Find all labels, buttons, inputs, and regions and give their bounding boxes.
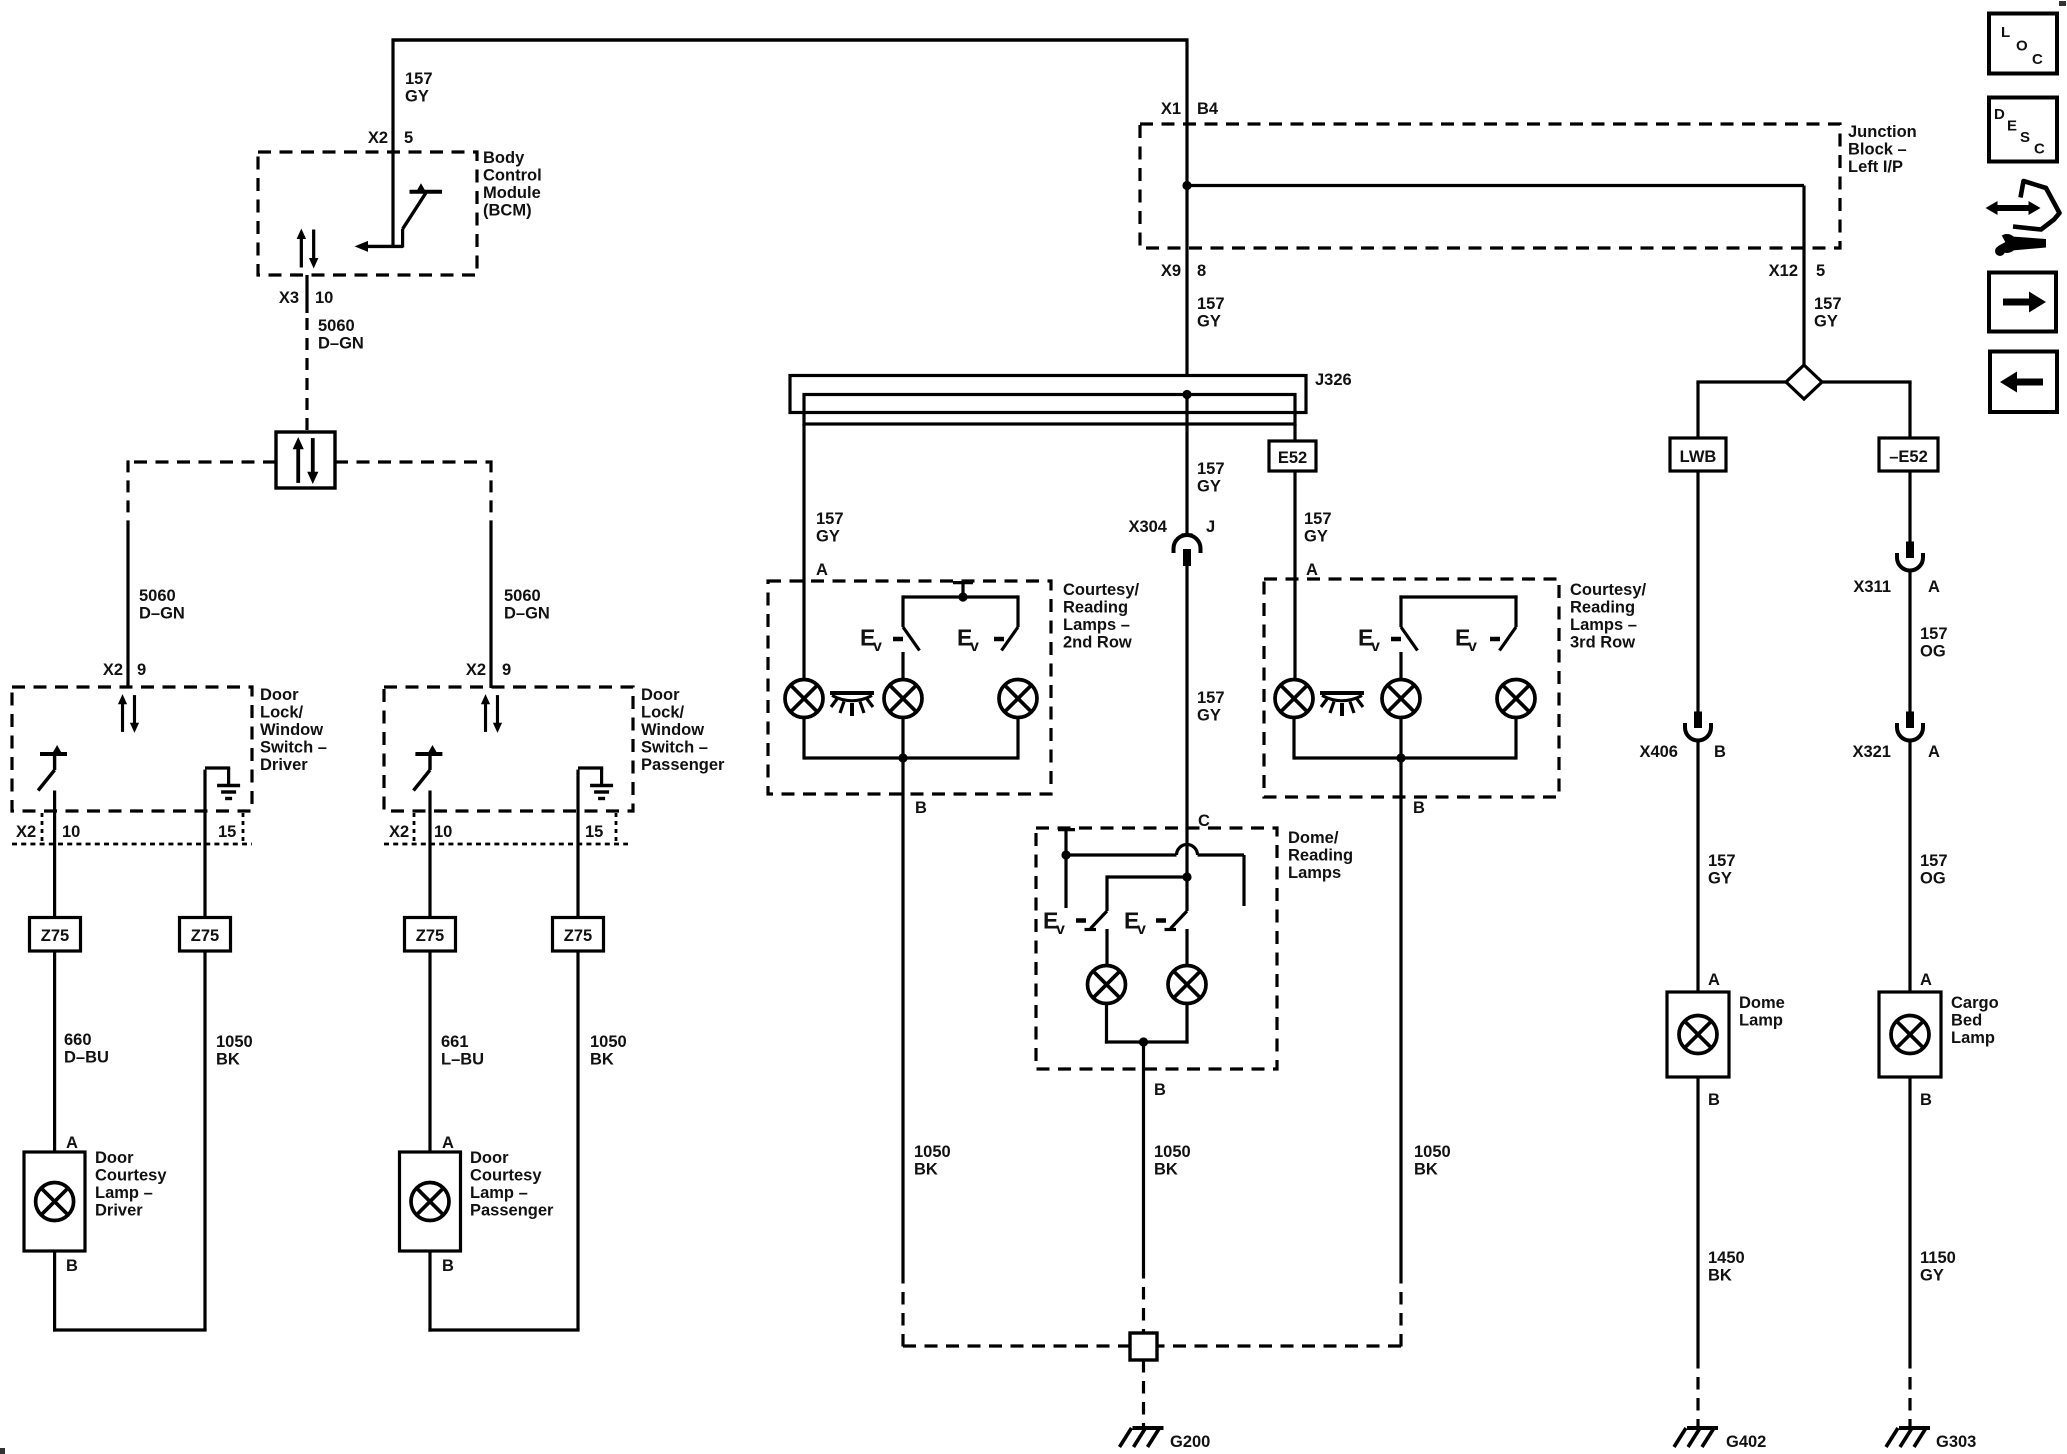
dome right switch label Ev <box>1124 908 1146 939</box>
icon LOC box <box>1989 14 2057 74</box>
svg-text:15: 15 <box>218 823 236 841</box>
connector Z75 (passenger 1050) <box>553 918 604 952</box>
icon back arrow box <box>1990 352 2057 413</box>
2nd row lamp returns <box>802 718 805 760</box>
page corner mark top-right <box>2059 1 2066 6</box>
svg-text:X321: X321 <box>1852 743 1891 761</box>
svg-text:157: 157 <box>1197 689 1225 707</box>
component Dome Lamp box <box>1667 992 1729 1077</box>
3rd row illumination rays icon <box>1320 693 1364 716</box>
svg-text:10: 10 <box>315 289 333 307</box>
svg-text:Lamps –: Lamps – <box>1063 616 1130 634</box>
2nd row pin B exit wire <box>901 758 904 795</box>
svg-text:B: B <box>915 799 927 817</box>
svg-text:5060: 5060 <box>504 587 541 605</box>
2nd row courtesy lamp (left on feed) <box>785 680 823 718</box>
3rd row courtesy lamp (left on feed) <box>1275 680 1313 718</box>
svg-text:X406: X406 <box>1639 743 1678 761</box>
svg-text:B: B <box>1154 1081 1166 1099</box>
component Courtesy/Reading Lamps - 3rd Row dashed outline <box>1264 579 1559 797</box>
wire 660 D-BU driver pin10 to Z75 <box>53 791 56 919</box>
svg-text:–E52: –E52 <box>1889 448 1928 466</box>
driver switch internal ground symbol <box>217 786 240 799</box>
wire 157 GY J326 to X304 <box>1185 395 1188 535</box>
svg-text:157: 157 <box>1920 625 1948 643</box>
dome case feed stub <box>1058 828 1075 831</box>
driver door jamb switch (pin 10) <box>38 745 67 791</box>
svg-text:5060: 5060 <box>318 317 355 335</box>
dome internal bus <box>1107 875 1187 878</box>
inline connector X311 pin A <box>1897 542 1923 571</box>
wire diamond to LWB <box>1696 380 1786 383</box>
connector Z75 (driver 660) <box>30 918 81 952</box>
svg-text:A: A <box>1306 561 1318 579</box>
3rd row pin B exit wire <box>1399 758 1402 798</box>
svg-text:Door: Door <box>260 686 299 704</box>
svg-text:X311: X311 <box>1853 578 1891 596</box>
wire 1150 GY cargo lamp return <box>1908 1077 1911 1356</box>
svg-text:D–GN: D–GN <box>504 605 550 623</box>
wire 157 OG X311 to X321 <box>1908 570 1911 712</box>
svg-text:8: 8 <box>1197 262 1206 280</box>
2nd row switch bus <box>903 595 1018 598</box>
wire 157 GY pin C inside dome case <box>1185 828 1188 878</box>
svg-text:157: 157 <box>1814 295 1842 313</box>
svg-text:Passenger: Passenger <box>641 756 725 774</box>
dome left reading lamp <box>1088 966 1126 1004</box>
svg-text:Window: Window <box>260 721 323 739</box>
wire 157 GY X12-5 exit <box>1802 248 1805 366</box>
wire 661 L-BU below Z75 <box>428 951 431 1152</box>
dome lamp bulb <box>1679 1016 1717 1054</box>
inline connector X304 pin J <box>1174 535 1201 566</box>
wire -E52 to X311 <box>1908 471 1911 542</box>
wire 157 GY drop to BCM X2-5 <box>391 39 394 248</box>
2nd row left switch label Ev <box>860 625 882 656</box>
connector Z75 (passenger 661) <box>405 918 456 952</box>
icon wrench <box>2012 237 2046 251</box>
svg-text:J: J <box>1206 518 1215 536</box>
svg-text:Control: Control <box>483 167 542 185</box>
svg-text:A: A <box>1928 578 1940 596</box>
svg-text:B: B <box>1708 1091 1720 1109</box>
dashed wire splice to passenger branch <box>335 460 489 463</box>
wire 1050 BK dome dashed to splice <box>1142 1266 1145 1333</box>
component Cargo Bed Lamp box <box>1879 992 1941 1077</box>
component Dome/Reading Lamps dashed outline <box>1036 828 1277 1069</box>
splice pack J326 outer bar <box>790 376 1306 413</box>
svg-text:9: 9 <box>502 661 511 679</box>
passenger door jamb switch (pin 10) <box>414 745 443 791</box>
svg-text:X2: X2 <box>16 823 36 841</box>
svg-text:1050: 1050 <box>1154 1143 1191 1161</box>
svg-text:2nd Row: 2nd Row <box>1063 634 1132 652</box>
wire 1050 BK from dome lamps <box>1142 1069 1145 1266</box>
svg-text:BK: BK <box>1154 1161 1178 1179</box>
svg-text:Lock/: Lock/ <box>260 704 304 722</box>
svg-text:Driver: Driver <box>95 1202 143 1220</box>
splice diamond symbol <box>1786 365 1822 399</box>
svg-text:5: 5 <box>404 129 413 147</box>
svg-text:Left I/P: Left I/P <box>1848 158 1903 176</box>
dome right lamp wire <box>1185 929 1188 966</box>
svg-text:B: B <box>66 1257 78 1275</box>
svg-text:C: C <box>2032 51 2043 68</box>
svg-text:GY: GY <box>1197 313 1221 331</box>
dome pin B exit wire <box>1142 1042 1145 1070</box>
svg-text:10: 10 <box>62 823 80 841</box>
icon double-headed arrow <box>1996 205 2030 211</box>
svg-text:Switch –: Switch – <box>260 739 327 757</box>
3rd row return node <box>1396 753 1405 762</box>
svg-text:Courtesy/: Courtesy/ <box>1570 581 1647 599</box>
svg-text:G303: G303 <box>1936 1433 1976 1451</box>
BCM internal switch blade <box>401 229 404 248</box>
svg-text:GY: GY <box>1304 528 1328 546</box>
junction block internal node <box>1182 181 1191 190</box>
component Courtesy/Reading Lamps - 2nd Row dashed outline <box>768 581 1051 794</box>
svg-text:9: 9 <box>137 661 146 679</box>
wire 157 GY X1-B4 into junction block <box>1185 39 1188 187</box>
inline connector X321 pin A <box>1897 712 1923 741</box>
2nd row right switch label Ev <box>957 625 979 656</box>
wire 157 GY E52 to 3rd row lamps <box>1293 471 1296 680</box>
svg-text:15: 15 <box>585 823 603 841</box>
svg-text:OG: OG <box>1920 870 1946 888</box>
option tag LWB box <box>1670 438 1726 471</box>
svg-text:3rd Row: 3rd Row <box>1570 634 1635 652</box>
svg-text:157: 157 <box>1920 852 1948 870</box>
component Junction Block - Left I/P dashed outline <box>1140 124 1840 248</box>
wire 5060 D-GN stub below BCM <box>305 275 308 313</box>
svg-text:GY: GY <box>1197 478 1221 496</box>
driver switch internal bidirectional arrows <box>118 694 139 733</box>
svg-text:1050: 1050 <box>914 1143 951 1161</box>
3rd row left switch <box>1399 595 1402 627</box>
svg-text:E: E <box>2007 118 2017 135</box>
svg-text:1050: 1050 <box>1414 1143 1451 1161</box>
wire 5060 D-GN driver branch solid <box>126 532 129 688</box>
svg-text:Reading: Reading <box>1063 599 1128 617</box>
2nd row right reading lamp <box>999 680 1037 718</box>
driver connector strip X2 pins 10 and 15 <box>12 843 252 846</box>
svg-text:B: B <box>1920 1091 1932 1109</box>
wire 1050 BK driver below Z75 <box>203 951 206 1330</box>
junction node on J326 <box>1182 390 1191 399</box>
svg-text:Module: Module <box>483 184 541 202</box>
component Door Courtesy Lamp - Passenger box <box>400 1152 461 1251</box>
svg-text:X12: X12 <box>1769 262 1798 280</box>
svg-text:X1: X1 <box>1161 100 1181 118</box>
2nd row left lamp wire <box>901 652 904 680</box>
2nd row node <box>958 592 967 601</box>
svg-text:Body: Body <box>483 149 525 167</box>
component Door Courtesy Lamp - Driver box <box>24 1152 85 1251</box>
svg-text:10: 10 <box>434 823 452 841</box>
svg-text:A: A <box>1920 971 1932 989</box>
svg-text:B4: B4 <box>1197 100 1219 118</box>
2nd row feed stub from case <box>953 581 973 584</box>
svg-text:Lamp –: Lamp – <box>95 1184 153 1202</box>
junction block internal bus wire <box>1187 184 1804 187</box>
svg-text:BK: BK <box>914 1161 938 1179</box>
wire 157 GY top feed horizontal <box>392 38 1189 41</box>
svg-text:157: 157 <box>1304 510 1332 528</box>
svg-text:L: L <box>2001 24 2010 41</box>
wire 5060 D-GN dashed to splice box <box>305 318 308 432</box>
svg-text:Bed: Bed <box>1951 1012 1982 1030</box>
svg-text:Window: Window <box>641 721 704 739</box>
svg-text:D–GN: D–GN <box>318 335 364 353</box>
svg-text:Lamp: Lamp <box>1739 1012 1783 1030</box>
svg-text:157: 157 <box>405 70 433 88</box>
svg-text:G200: G200 <box>1170 1433 1210 1451</box>
BCM internal switch contact arrow (output to X3-10) <box>368 245 403 248</box>
svg-text:Lamps –: Lamps – <box>1570 616 1637 634</box>
svg-text:Passenger: Passenger <box>470 1202 554 1220</box>
svg-text:Courtesy: Courtesy <box>95 1167 167 1185</box>
splice pack J326 inner bar <box>804 395 1295 425</box>
svg-text:1450: 1450 <box>1708 1249 1745 1267</box>
icon DESC box <box>1989 98 2057 162</box>
svg-text:B: B <box>1413 799 1425 817</box>
wire passenger lamp B return <box>428 1251 431 1332</box>
icon repair glove outline <box>2013 181 2060 230</box>
2nd row return node <box>898 753 907 762</box>
svg-text:S: S <box>2020 129 2030 146</box>
wire 5060 D-GN passenger branch dashed <box>489 460 492 532</box>
svg-text:Courtesy/: Courtesy/ <box>1063 581 1140 599</box>
svg-text:L–BU: L–BU <box>441 1051 484 1069</box>
component Door Lock/Window Switch - Passenger dashed outline <box>384 687 633 811</box>
svg-text:X2: X2 <box>103 661 123 679</box>
2nd row illumination rays icon <box>830 693 874 716</box>
dome left switch <box>1105 875 1108 911</box>
dome left switch label Ev <box>1043 908 1065 939</box>
svg-text:5: 5 <box>1816 262 1825 280</box>
cargo bed lamp bulb <box>1891 1016 1929 1054</box>
wire 1450 BK dashed to G402 <box>1696 1356 1699 1428</box>
svg-text:D: D <box>1994 106 2005 123</box>
3rd row lamp returns <box>1292 718 1295 760</box>
passenger courtesy lamp bulb <box>411 1183 449 1221</box>
svg-text:A: A <box>1708 971 1720 989</box>
svg-text:Cargo: Cargo <box>1951 994 1999 1012</box>
svg-text:157: 157 <box>816 510 844 528</box>
component BCM dashed outline <box>258 152 477 275</box>
svg-text:1150: 1150 <box>1920 1249 1956 1267</box>
3rd row right switch label Ev <box>1455 625 1477 656</box>
svg-text:X304: X304 <box>1128 518 1167 536</box>
svg-text:661: 661 <box>441 1033 469 1051</box>
dome internal node left <box>1061 850 1070 859</box>
3rd row right reading lamp <box>1497 680 1535 718</box>
svg-text:1050: 1050 <box>216 1033 253 1051</box>
svg-text:X2: X2 <box>389 823 409 841</box>
BCM internal bidirectional arrows <box>297 229 319 269</box>
svg-text:Lamp: Lamp <box>1951 1029 1995 1047</box>
ground G200 symbol <box>1120 1428 1164 1447</box>
svg-text:GY: GY <box>1814 313 1838 331</box>
page corner mark bottom-left <box>0 1448 5 1454</box>
dome right switch <box>1185 877 1188 911</box>
svg-text:G402: G402 <box>1726 1433 1766 1451</box>
3rd row switch bus <box>1399 595 1517 598</box>
wire 157 GY X304 to dome lamps <box>1185 566 1188 829</box>
svg-text:Lamp –: Lamp – <box>470 1184 528 1202</box>
wire 1450 BK dome lamp return <box>1696 1077 1699 1356</box>
wire 1050 BK passenger below Z75 <box>576 951 579 1330</box>
wire 5060 D-GN driver branch dashed <box>126 460 129 532</box>
svg-text:Lock/: Lock/ <box>641 704 685 722</box>
svg-text:Junction: Junction <box>1848 123 1917 141</box>
svg-text:Z75: Z75 <box>191 927 219 945</box>
svg-text:GY: GY <box>1920 1267 1944 1285</box>
inline connector X406 pin B <box>1685 712 1711 741</box>
svg-text:GY: GY <box>1708 870 1732 888</box>
svg-text:X2: X2 <box>466 661 486 679</box>
svg-text:157: 157 <box>1197 295 1225 313</box>
svg-text:Lamps: Lamps <box>1288 864 1341 882</box>
2nd row middle reading lamp <box>884 680 922 718</box>
svg-text:X2: X2 <box>368 129 388 147</box>
svg-text:A: A <box>1928 743 1940 761</box>
wire 1050 BK from 2nd row <box>901 795 904 1271</box>
wire 5060 D-GN passenger branch solid <box>489 532 492 688</box>
svg-text:Driver: Driver <box>260 756 308 774</box>
dome lamp returns <box>1105 1004 1108 1044</box>
svg-text:660: 660 <box>64 1031 92 1049</box>
wire 157 OG X321 to cargo lamp <box>1908 740 1911 993</box>
svg-text:E52: E52 <box>1278 449 1307 467</box>
svg-text:Door: Door <box>470 1149 509 1167</box>
svg-text:J326: J326 <box>1315 371 1352 389</box>
svg-text:1050: 1050 <box>590 1033 627 1051</box>
passenger connector strip X2 pins 10 and 15 <box>384 843 628 846</box>
2nd row left switch <box>901 595 904 627</box>
svg-text:Switch –: Switch – <box>641 739 708 757</box>
svg-text:OG: OG <box>1920 643 1946 661</box>
svg-text:D–BU: D–BU <box>64 1049 109 1067</box>
wire LWB to X406 <box>1696 471 1699 712</box>
3rd row right switch <box>1514 595 1517 627</box>
svg-text:Z75: Z75 <box>564 927 592 945</box>
svg-text:A: A <box>442 1134 454 1152</box>
svg-text:LWB: LWB <box>1680 448 1717 466</box>
option tag -E52 box <box>1879 438 1938 471</box>
svg-text:Reading: Reading <box>1570 599 1635 617</box>
svg-text:Dome: Dome <box>1739 994 1785 1012</box>
svg-text:Block –: Block – <box>1848 141 1907 159</box>
svg-text:BK: BK <box>216 1051 240 1069</box>
svg-text:Z75: Z75 <box>41 927 69 945</box>
driver courtesy lamp bulb <box>36 1183 74 1221</box>
wire driver lamp B return <box>53 1251 56 1332</box>
svg-text:Door: Door <box>95 1149 134 1167</box>
svg-text:A: A <box>816 561 828 579</box>
driver switch internal ground wire <box>203 770 206 811</box>
wire 157 GY J326 to 2nd row lamps <box>802 424 805 680</box>
wire 1050 BK 2nd row dashed to splice <box>901 1271 904 1347</box>
3rd row left lamp wire <box>1399 652 1402 680</box>
icon forward arrow box <box>1989 273 2056 332</box>
wire 1150 GY dashed to G303 <box>1908 1356 1911 1428</box>
dome return node <box>1139 1037 1148 1046</box>
svg-text:157: 157 <box>1197 460 1225 478</box>
svg-text:B: B <box>1714 743 1726 761</box>
wire 660 D-BU below Z75 <box>53 951 56 1152</box>
svg-text:GY: GY <box>1197 707 1221 725</box>
svg-text:X9: X9 <box>1161 262 1181 280</box>
passenger switch internal bidirectional arrows <box>481 694 502 733</box>
svg-text:GY: GY <box>405 88 429 106</box>
svg-text:5060: 5060 <box>139 587 176 605</box>
svg-text:(BCM): (BCM) <box>483 202 532 220</box>
dome right reading lamp <box>1168 966 1206 1004</box>
svg-text:Door: Door <box>641 686 680 704</box>
passenger switch internal ground wire <box>576 770 579 811</box>
svg-text:O: O <box>2016 38 2028 55</box>
svg-text:GY: GY <box>816 528 840 546</box>
wire 1050 BK driver pin15 to Z75 <box>203 811 206 918</box>
svg-text:C: C <box>2034 141 2045 158</box>
svg-text:BK: BK <box>1708 1267 1732 1285</box>
svg-text:BK: BK <box>590 1051 614 1069</box>
wire 157 GY X9-8 exit <box>1185 186 1188 378</box>
ground G303 symbol <box>1886 1428 1930 1447</box>
wire splice to G200 dashed <box>1142 1360 1145 1428</box>
3rd row left switch label Ev <box>1358 625 1380 656</box>
wire 157 GY J326 to E52 <box>1293 424 1296 442</box>
dome feed node <box>1182 872 1191 881</box>
svg-text:B: B <box>442 1257 454 1275</box>
connector Z75 (driver 1050) <box>180 918 231 952</box>
2nd row right switch <box>1016 595 1019 627</box>
passenger switch internal ground symbol <box>590 786 613 799</box>
wire 1050 BK passenger pin15 to Z75 <box>576 811 579 918</box>
wire 157 GY X406 to dome lamp <box>1696 740 1699 993</box>
svg-text:157: 157 <box>1708 852 1736 870</box>
dome left lamp wire <box>1105 929 1108 966</box>
svg-text:Z75: Z75 <box>416 927 444 945</box>
component Door Lock/Window Switch - Driver dashed outline <box>12 687 252 811</box>
wire 1050 BK 3rd row dashed to splice <box>1399 1271 1402 1347</box>
splice pass-through box with arrows <box>276 432 335 488</box>
ground splice node square <box>1130 1333 1157 1360</box>
svg-text:X3: X3 <box>279 289 299 307</box>
junction block internal drop to X12 <box>1802 186 1805 249</box>
ground G402 symbol <box>1674 1428 1718 1447</box>
svg-text:D–GN: D–GN <box>139 605 185 623</box>
connector E52 box <box>1269 441 1316 471</box>
svg-text:Reading: Reading <box>1288 847 1353 865</box>
svg-text:A: A <box>66 1134 78 1152</box>
wire 1050 BK from 3rd row <box>1399 798 1402 1271</box>
svg-text:Courtesy: Courtesy <box>470 1167 542 1185</box>
dome internal crossover with hop <box>1066 853 1177 856</box>
svg-text:Dome/: Dome/ <box>1288 829 1339 847</box>
dashed wire splice to driver branch <box>130 460 276 463</box>
wire diamond to -E52 <box>1822 380 1912 383</box>
svg-text:BK: BK <box>1414 1161 1438 1179</box>
wire 661 L-BU passenger pin10 to Z75 <box>428 791 431 919</box>
3rd row middle reading lamp <box>1382 680 1420 718</box>
